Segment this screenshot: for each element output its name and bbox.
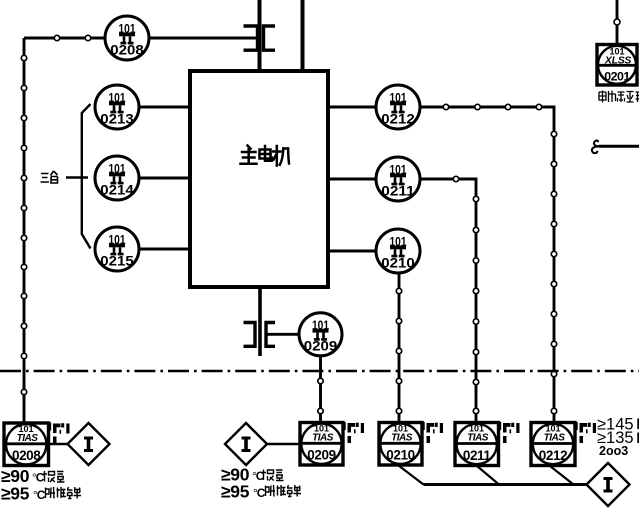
label: >=90C alarm (left block) [1, 466, 45, 486]
svg-text:0209: 0209 [307, 448, 335, 463]
wire: top shaft line left (motor input shaft) [258, 0, 262, 71]
TE 0214 [95, 156, 139, 200]
svg-text:C: C [37, 488, 46, 502]
label: 主电机 (main motor) drawn strokes [241, 146, 290, 166]
svg-text:0208: 0208 [12, 448, 41, 463]
TE 0209 [299, 313, 342, 356]
wire: interlock I to TIAS0209 [267, 443, 300, 445]
wire: TE0209 drop to TIAS0209 w/ nodes [319, 355, 322, 423]
svg-text:0210: 0210 [381, 254, 415, 270]
wire: TE0212 trunk to TIAS0212 w/ nodes [419, 107, 554, 423]
boundary line (field/panel) dash-dot [0, 370, 639, 372]
interlock diamond I (middle) [225, 423, 267, 465]
label: >=95C interlock stop (left block line2) [1, 484, 46, 504]
svg-text:TIAS: TIAS [544, 433, 566, 444]
wire: TIAS0212 diagonal to voting line [550, 466, 574, 485]
svg-text:0208: 0208 [110, 41, 144, 57]
coupling (bottom, on shaft at y=334) [244, 323, 276, 347]
wire: TE0210 drop to TIAS0210 w/ nodes [398, 272, 401, 423]
label: 联锁停车 drawn (middle, line2) [266, 485, 302, 497]
TE 0210 [376, 229, 420, 273]
svg-text:0213: 0213 [100, 110, 134, 126]
connector flag at TIAS0211 [499, 422, 520, 443]
TIAS 0212 panel instrument [531, 423, 575, 466]
svg-text:0210: 0210 [386, 448, 414, 463]
connector flag at TIAS0212 [576, 422, 597, 443]
wire: drop to XLSS0201 w/ node [616, 0, 619, 45]
svg-text:TIAS: TIAS [17, 433, 39, 444]
interlock diamond I (left) [68, 423, 110, 465]
svg-text:TIAS: TIAS [312, 433, 334, 444]
label: 报警 drawn (middle, line1) [262, 470, 284, 481]
svg-text:2oo3: 2oo3 [599, 444, 628, 458]
wire: TIAS0210 diagonal to voting line [399, 466, 424, 485]
TE 0211 [376, 157, 420, 201]
wire: coupling to TE0209 [266, 333, 300, 336]
wire: 2oo3 voting line to interlock [424, 483, 588, 486]
wire: TE0215 to motor [139, 248, 190, 251]
label: caption under 0201 (CJK drawn) [599, 91, 639, 103]
svg-text:C: C [36, 471, 45, 485]
svg-text:0211: 0211 [381, 182, 415, 198]
TE 0212 [376, 85, 420, 129]
label: >=95C interlock stop (middle block line2) [221, 482, 266, 502]
svg-text:0212: 0212 [381, 110, 415, 126]
svg-text:C: C [257, 486, 266, 500]
svg-text:TIAS: TIAS [467, 433, 489, 444]
svg-text:0212: 0212 [539, 448, 567, 463]
wire: TE0211 trunk to TIAS0211 w/ nodes [419, 179, 476, 423]
wire: left trunk vertical w/ nodes [23, 38, 26, 423]
wire: motor to TE0212 [328, 106, 377, 109]
wire: motor to TE0210 [328, 250, 377, 253]
TE 0213 [95, 85, 139, 129]
TIAS 0208 panel instrument [4, 423, 49, 466]
TIAS 0209 panel instrument [300, 423, 343, 466]
svg-text:0215: 0215 [100, 252, 134, 268]
wire: TIAS0211 diagonal to voting line [477, 466, 499, 485]
svg-text:≥95: ≥95 [1, 484, 30, 504]
wire: TIAS0208 to interlock I [49, 443, 68, 445]
XLSS 0201 shared instrument (square + circle) [597, 45, 637, 86]
label: 三备 drawn strokes [41, 171, 58, 183]
svg-text:0211: 0211 [463, 448, 492, 463]
wire: motor to TE0211 [328, 178, 377, 181]
wire: top shaft line right [301, 0, 305, 71]
wire: TE0208 to coupling [148, 37, 258, 40]
label: 报警 drawn (left, line1) [43, 471, 65, 482]
connector flag at TIAS0210 [423, 422, 444, 443]
interlock diamond I (2oo3, right) [587, 463, 630, 506]
svg-text:TIAS: TIAS [391, 433, 413, 444]
connector flag at TIAS0208 [49, 423, 70, 444]
svg-text:≥95: ≥95 [221, 482, 250, 502]
svg-text:0201: 0201 [604, 70, 630, 84]
TIAS 0210 panel instrument [379, 423, 422, 466]
label: >=90C alarm (middle block) [221, 465, 265, 485]
TIAS 0211 panel instrument [455, 423, 499, 466]
connector flag at TIAS0209 [344, 422, 365, 443]
continuation squiggle arrow [592, 140, 639, 153]
wire: bottom shaft from motor [258, 287, 262, 356]
TE 0215 [95, 227, 139, 271]
label: 联锁停车 drawn (left, line2) [46, 487, 82, 499]
svg-text:0209: 0209 [304, 338, 338, 354]
brace: group of three (三备) [82, 104, 91, 249]
main motor M1 [190, 71, 328, 287]
svg-text:0214: 0214 [100, 181, 134, 197]
coupling (top, on shaft at y=38) [244, 26, 276, 50]
wire: TE0214 to motor [139, 177, 190, 180]
wire: TE0213 to motor [139, 106, 190, 109]
TE 0208 (temperature element circle) [105, 16, 149, 60]
wire: left trunk horizontal w/ nodes [24, 37, 106, 40]
